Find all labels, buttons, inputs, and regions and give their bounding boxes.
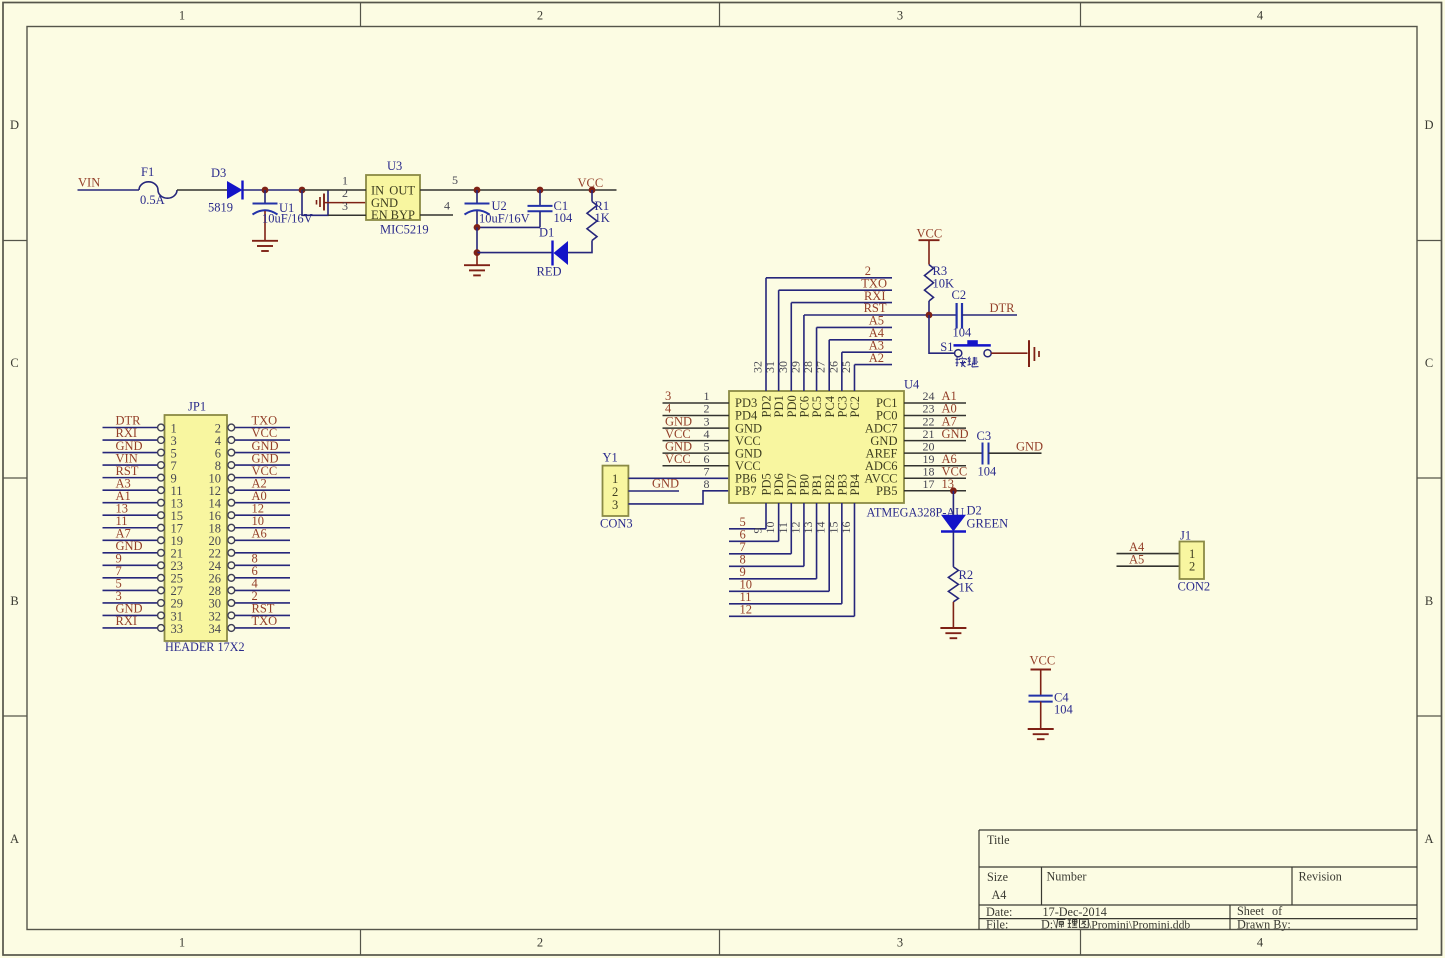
svg-text:A: A	[1424, 832, 1433, 846]
ground	[323, 194, 325, 211]
JP1 pin 6 wire net GND	[235, 452, 290, 454]
JP1 pin 28 wire net 4	[235, 589, 290, 591]
svg-text:Revision: Revision	[1299, 870, 1342, 884]
JP1 pin 24 wire net 8	[235, 564, 290, 566]
svg-text:PB7: PB7	[735, 484, 757, 498]
wire	[243, 189, 303, 191]
wire	[952, 491, 954, 515]
svg-text:GND: GND	[1016, 439, 1043, 453]
JP1 pin 20 wire net A6	[235, 539, 290, 541]
svg-text:C3: C3	[977, 429, 992, 443]
svg-text:PB5: PB5	[876, 484, 898, 498]
svg-text:Drawn By:: Drawn By:	[1237, 918, 1291, 932]
svg-text:1: 1	[179, 936, 185, 950]
svg-text:U4: U4	[904, 378, 920, 392]
U4 bottom pin 9 PD5 net 5	[765, 503, 767, 529]
ground	[1040, 702, 1042, 729]
wire	[568, 241, 592, 253]
capacitor U2	[476, 190, 478, 203]
connector JP1	[165, 415, 228, 641]
U4 bottom pin 12 PB0 net 8	[803, 503, 805, 566]
svg-text:104: 104	[1054, 703, 1074, 717]
mcu U4 ATMEGA328P-AU	[729, 391, 904, 503]
svg-text:DTR: DTR	[990, 301, 1016, 315]
svg-text:C2: C2	[952, 288, 967, 302]
wire RST net	[804, 314, 956, 316]
svg-text:CON3: CON3	[600, 517, 633, 531]
JP1 pin 25 wire net 7	[103, 577, 158, 579]
svg-text:A2: A2	[869, 351, 884, 365]
wire net A4	[1117, 553, 1180, 555]
capacitor C2	[955, 303, 957, 329]
svg-text:A6: A6	[252, 526, 267, 540]
svg-text:3: 3	[897, 936, 903, 950]
JP1 pin 17 wire net 11	[103, 527, 158, 529]
svg-text:4: 4	[444, 199, 450, 213]
pin 1	[302, 189, 366, 191]
svg-text:VCC: VCC	[1030, 654, 1056, 668]
ground	[476, 253, 478, 266]
svg-text:10uF/16V: 10uF/16V	[262, 212, 313, 226]
svg-text:PC2: PC2	[848, 396, 862, 418]
svg-text:VIN: VIN	[78, 176, 100, 190]
svg-text:104: 104	[953, 326, 973, 340]
U4 top pin 32 PD2 net 2	[765, 278, 767, 391]
regulator U3	[366, 175, 420, 220]
svg-text:104: 104	[978, 465, 998, 479]
JP1 pin 11 wire net A3	[103, 489, 158, 491]
svg-text:Y1: Y1	[603, 451, 618, 465]
svg-text:Title: Title	[987, 833, 1010, 847]
wire	[78, 189, 140, 191]
svg-text:34: 34	[209, 622, 222, 636]
U4 bottom pin 16 PB4 net 12	[853, 503, 855, 616]
svg-text:JP1: JP1	[188, 400, 206, 414]
JP1 pin 33 wire net RXI	[103, 627, 158, 629]
JP1 pin 21 wire net GND	[103, 552, 158, 554]
svg-text:TXO: TXO	[252, 614, 278, 628]
capacitor U1	[264, 190, 266, 203]
ground	[952, 602, 954, 628]
svg-text:4: 4	[1257, 936, 1264, 950]
capacitor C3	[982, 443, 984, 465]
svg-text:HEADER 17X2: HEADER 17X2	[165, 640, 245, 654]
svg-text:16: 16	[839, 522, 853, 534]
JP1 pin 13 wire net A1	[103, 502, 158, 504]
wire	[477, 252, 553, 254]
U4 bottom pin 15 PB3 net 11	[841, 503, 843, 604]
LED D2	[941, 515, 966, 532]
JP1 pin 27 wire net 5	[103, 589, 158, 591]
wire	[929, 315, 955, 353]
svg-text:D1: D1	[539, 226, 554, 240]
svg-text:25: 25	[839, 361, 853, 373]
U4 top pin 30 PD0 net RXI	[790, 303, 792, 391]
junction	[926, 312, 933, 319]
svg-text:5: 5	[452, 173, 458, 187]
svg-text:BYP: BYP	[391, 208, 415, 222]
JP1 pin 14 wire net A0	[235, 502, 290, 504]
JP1 pin 19 wire net A7	[103, 539, 158, 541]
JP1 pin 16 wire net 12	[235, 514, 290, 516]
svg-text:3: 3	[897, 9, 903, 23]
svg-text:U3: U3	[387, 159, 402, 173]
wire	[477, 226, 540, 228]
svg-text:Size: Size	[987, 870, 1008, 884]
svg-text:3: 3	[612, 498, 618, 512]
wire Y1 pin1 to U4 pin7	[628, 477, 729, 479]
junction	[262, 187, 269, 194]
svg-text:D2: D2	[967, 504, 982, 518]
wire	[989, 452, 1042, 454]
junction node 13	[950, 487, 957, 494]
JP1 pin 34 wire net TXO	[235, 627, 290, 629]
LED D1	[551, 241, 553, 266]
svg-text:GND: GND	[942, 427, 969, 441]
svg-text:3: 3	[342, 199, 348, 213]
svg-text:C: C	[1425, 356, 1433, 370]
svg-text:D3: D3	[211, 166, 226, 180]
ground	[252, 240, 278, 242]
U4 top pin 28 PC5 net A5	[816, 327, 818, 391]
JP1 pin 5 wire net GND	[103, 452, 158, 454]
svg-text:2: 2	[537, 936, 543, 950]
svg-text:2: 2	[1189, 559, 1195, 573]
svg-text:of: of	[1272, 904, 1283, 918]
JP1 pin 18 wire net 10	[235, 527, 290, 529]
resistor R1	[591, 190, 593, 202]
switch S1	[955, 350, 962, 357]
JP1 pin 9 wire net RST	[103, 477, 158, 479]
svg-text:EN: EN	[371, 208, 388, 222]
svg-text:2: 2	[537, 9, 543, 23]
svg-text:10uF/16V: 10uF/16V	[479, 212, 530, 226]
svg-text:OUT: OUT	[389, 183, 415, 197]
junction	[537, 187, 544, 194]
svg-text:A4: A4	[992, 888, 1007, 902]
U4 bottom pin 14 PB2 net 10	[828, 503, 830, 591]
junction	[474, 187, 481, 194]
svg-text:CON2: CON2	[1178, 580, 1211, 594]
junction	[299, 187, 306, 194]
pin 3	[328, 214, 366, 216]
JP1 pin 7 wire net VIN	[103, 464, 158, 466]
JP1 pin 15 wire net 13	[103, 514, 158, 516]
connector J1	[1180, 542, 1205, 580]
svg-text:GREEN: GREEN	[967, 517, 1009, 531]
svg-text:D: D	[10, 118, 19, 132]
capacitor C4	[1029, 695, 1053, 697]
svg-text:4: 4	[1257, 9, 1264, 23]
wire	[928, 301, 930, 315]
svg-text:12: 12	[740, 603, 753, 617]
svg-text:B: B	[10, 594, 18, 608]
JP1 pin 2 wire net TXO	[235, 427, 290, 429]
U4 top pin 27 PC4 net A4	[828, 340, 830, 391]
svg-text:D:\: D:\	[1041, 918, 1057, 932]
U4 bottom pin 13 PB1 net 9	[816, 503, 818, 579]
svg-text:RXI: RXI	[116, 614, 138, 628]
U4 top pin 25 PC2 net A2	[853, 365, 855, 391]
wire	[962, 314, 1017, 316]
U4 bottom pin 11 PD7 net 7	[790, 503, 792, 554]
junction	[474, 224, 481, 231]
svg-text:A: A	[10, 832, 19, 846]
svg-text:D: D	[1424, 118, 1433, 132]
JP1 pin 8 wire net GND	[235, 464, 290, 466]
diode D3	[227, 181, 243, 199]
svg-text:F1: F1	[141, 165, 154, 179]
wire	[991, 352, 1027, 354]
svg-text:2: 2	[612, 485, 618, 499]
svg-text:8: 8	[704, 477, 710, 491]
wire Y1 pin2 net GND	[628, 490, 679, 492]
svg-text:J1: J1	[1180, 529, 1191, 543]
wire net A5	[1117, 565, 1180, 567]
svg-text:17: 17	[923, 477, 935, 491]
svg-text:GND: GND	[652, 477, 679, 491]
JP1 pin 3 wire net RXI	[103, 439, 158, 441]
svg-text:VCC: VCC	[665, 452, 691, 466]
U4 bottom pin 10 PD6 net 6	[778, 503, 780, 541]
U4 top pin 29 PC6 net RST	[803, 315, 805, 391]
JP1 pin 22 wire net nc	[235, 552, 290, 554]
U4 top pin 26 PC3 net A3	[841, 352, 843, 391]
wire Y1 pin3 to U4 pin8	[628, 491, 729, 504]
svg-text:1K: 1K	[959, 581, 974, 595]
svg-text:RED: RED	[537, 265, 562, 279]
svg-text:6: 6	[704, 452, 710, 466]
JP1 pin 1 wire net DTR	[103, 427, 158, 429]
JP1 pin 4 wire net VCC	[235, 439, 290, 441]
svg-text:A5: A5	[1129, 553, 1144, 567]
svg-text:5819: 5819	[208, 201, 233, 215]
wire	[177, 189, 227, 191]
connector Y1	[603, 466, 629, 516]
svg-text:S1: S1	[940, 340, 953, 354]
resistor R2	[948, 567, 958, 602]
svg-text:104: 104	[554, 211, 574, 225]
svg-text:1: 1	[612, 472, 618, 486]
JP1 pin 31 wire net GND	[103, 614, 158, 616]
svg-text:C: C	[10, 356, 18, 370]
pin 5 / VCC rail wire	[420, 189, 617, 191]
svg-text:Sheet: Sheet	[1237, 904, 1265, 918]
svg-text:MIC5219: MIC5219	[380, 223, 429, 237]
JP1 pin 32 wire net RST	[235, 614, 290, 616]
wire	[476, 227, 478, 252]
ground	[1028, 340, 1030, 367]
JP1 pin 12 wire net A2	[235, 489, 290, 491]
svg-text:33: 33	[171, 622, 184, 636]
capacitor C1	[539, 190, 541, 206]
fuse F1	[139, 182, 177, 198]
svg-text:VCC: VCC	[917, 226, 943, 240]
svg-text:B: B	[1425, 594, 1433, 608]
pin 4 BYP stub	[420, 214, 453, 216]
svg-text:1K: 1K	[595, 211, 610, 225]
JP1 pin 30 wire net 2	[235, 602, 290, 604]
JP1 pin 23 wire net 9	[103, 564, 158, 566]
svg-text:PB4: PB4	[848, 473, 862, 495]
svg-text:1: 1	[179, 9, 185, 23]
JP1 pin 10 wire net VCC	[235, 477, 290, 479]
resistor R3	[925, 265, 934, 301]
svg-text:File:: File:	[986, 918, 1008, 932]
junction	[474, 249, 481, 256]
svg-text:0.5A: 0.5A	[140, 193, 165, 207]
wire	[302, 190, 328, 215]
U4 top pin 31 PD1 net TXO	[778, 290, 780, 391]
JP1 pin 29 wire net 3	[103, 602, 158, 604]
JP1 pin 26 wire net 6	[235, 577, 290, 579]
svg-text:\Promini\Promini.ddb: \Promini\Promini.ddb	[1088, 919, 1190, 932]
wire	[952, 532, 954, 567]
svg-text:Number: Number	[1047, 870, 1087, 884]
junction	[589, 187, 596, 194]
